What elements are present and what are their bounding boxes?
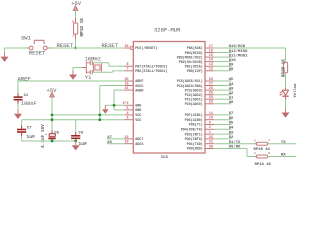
svg-text:PB7(XTAL2/TOSC2): PB7(XTAL2/TOSC2) xyxy=(135,64,167,69)
svg-text:2: 2 xyxy=(254,139,256,142)
pin 30 PD0(RXD) xyxy=(205,148,214,150)
wire net D11/MOSI xyxy=(214,56,231,58)
svg-text:21: 21 xyxy=(125,87,129,91)
pin 29 PC6(/RESET) xyxy=(124,47,130,49)
junction AVCC/VCC1 xyxy=(98,114,101,117)
svg-text:A5: A5 xyxy=(229,78,234,82)
pin 5 GND xyxy=(124,109,133,111)
svg-text:10: 10 xyxy=(209,117,213,121)
svg-text:D5: D5 xyxy=(229,122,234,126)
junction +5V/VCC1 xyxy=(51,114,54,117)
svg-text:PC0(ADC0): PC0(ADC0) xyxy=(185,102,203,107)
svg-text:1: 1 xyxy=(209,131,211,135)
svg-text:A2: A2 xyxy=(229,92,234,96)
svg-text:1: 1 xyxy=(254,152,256,155)
capacitor C5 4.7uF 16V (polarized) xyxy=(51,131,53,134)
svg-text:ADC6: ADC6 xyxy=(135,143,143,147)
svg-text:A7: A7 xyxy=(107,136,112,140)
pin 18 AVCC xyxy=(124,85,133,87)
svg-text:C7: C7 xyxy=(27,126,32,130)
svg-text:PD3(INT1): PD3(INT1) xyxy=(185,132,203,137)
svg-text:C3: C3 xyxy=(78,132,83,136)
svg-text:4.7uF 16V: 4.7uF 16V xyxy=(41,124,46,148)
wire net D8 xyxy=(214,70,231,72)
wire AVCC feed xyxy=(100,85,124,87)
svg-text:PB6(XTAL1/TOSC1): PB6(XTAL1/TOSC1) xyxy=(135,69,167,74)
svg-text:ADC7: ADC7 xyxy=(135,138,143,142)
pin 32 PD2(INT0) xyxy=(205,138,214,140)
svg-text:D1/TX: D1/TX xyxy=(229,140,241,145)
wire net A3 xyxy=(214,89,231,91)
pin 7 PB6(XTAL1/TOSC1) xyxy=(124,70,133,72)
pin 13 PB1(OC1A) xyxy=(205,65,214,67)
wire net D3 xyxy=(214,133,231,135)
svg-text:PC2(ADC2): PC2(ADC2) xyxy=(185,93,203,98)
svg-text:D7: D7 xyxy=(229,112,234,116)
pin 19 ADC6 xyxy=(124,143,133,145)
svg-text:4: 4 xyxy=(127,112,129,116)
wire GND pin row 1 xyxy=(105,104,124,106)
pin 20 AREF xyxy=(124,80,133,82)
wire resistor to LED xyxy=(285,73,287,88)
wire net A6 xyxy=(107,143,124,145)
svg-text:27: 27 xyxy=(209,83,213,87)
svg-text:RESET: RESET xyxy=(102,42,119,49)
svg-text:7: 7 xyxy=(268,139,270,142)
svg-text:29: 29 xyxy=(125,45,129,49)
svg-text:PD2(INT0): PD2(INT0) xyxy=(185,137,203,142)
wire LED to ground xyxy=(285,97,287,100)
pin 24 PC1(ADC1) xyxy=(205,98,214,100)
svg-text:A4: A4 xyxy=(229,83,234,87)
ground (resonator) xyxy=(72,70,74,74)
wire AREF net xyxy=(18,80,125,82)
capacitor C3 1uF xyxy=(75,120,77,132)
pin 12 PB0(ICP) xyxy=(205,70,214,72)
svg-text:IC3: IC3 xyxy=(161,156,169,160)
wire net D9 xyxy=(214,65,231,67)
svg-text:19: 19 xyxy=(125,141,129,145)
svg-text:RP1D 1K: RP1D 1K xyxy=(80,18,85,37)
svg-text:PB4(MISO): PB4(MISO) xyxy=(185,51,203,56)
ground (switch) xyxy=(4,52,6,56)
svg-text:14: 14 xyxy=(209,59,213,63)
svg-text:9: 9 xyxy=(209,121,211,125)
svg-text:PB3(MOSI/OC2): PB3(MOSI/OC2) xyxy=(177,55,203,60)
wire C7 to gnd rail xyxy=(21,136,23,141)
wire net A4 xyxy=(214,85,231,87)
pin 17 PB5(SCK) xyxy=(205,47,214,49)
svg-text:AREF: AREF xyxy=(18,76,31,83)
wire TX out xyxy=(267,143,296,145)
LED D1 Yellow xyxy=(282,90,288,95)
wire net A0 xyxy=(214,103,231,105)
svg-text:8: 8 xyxy=(127,63,129,67)
wire net A5 xyxy=(214,80,231,82)
resistor RP1D 1K (reset pullup) xyxy=(75,18,77,23)
wire +5V to resistor xyxy=(75,10,77,18)
junction C3/gnd rail xyxy=(74,140,77,143)
svg-text:5: 5 xyxy=(127,107,129,111)
svg-text:Y1: Y1 xyxy=(85,74,92,81)
svg-text:6: 6 xyxy=(127,117,129,121)
junction AGND/GND xyxy=(113,104,116,107)
resistor RP1A 1K (RX) xyxy=(255,156,257,158)
wire net D1/TX xyxy=(214,143,256,145)
ground (cap rail) xyxy=(75,141,77,145)
pin 26 PC3(ADC3) xyxy=(205,89,214,91)
pin 2 PD4(XCK/T0) xyxy=(205,128,214,130)
svg-text:PC1(ADC1): PC1(ADC1) xyxy=(185,97,203,102)
wire net D12/MISO xyxy=(214,52,231,54)
wire net A2 xyxy=(214,94,231,96)
junction C5/gnd rail xyxy=(51,140,54,143)
svg-text:31: 31 xyxy=(209,141,213,145)
svg-text:7: 7 xyxy=(127,68,129,72)
wire +5V down to C5 xyxy=(51,97,53,131)
svg-text:RESET: RESET xyxy=(29,49,46,56)
svg-text:PC4(ADC4/SDA): PC4(ADC4/SDA) xyxy=(177,84,203,89)
svg-text:2: 2 xyxy=(209,126,211,130)
svg-text:PD5(T1): PD5(T1) xyxy=(189,123,203,128)
pin 8 PB7(XTAL2/TOSC2) xyxy=(124,65,133,67)
pin 28 PC5(ADC5/SCL) xyxy=(205,80,214,82)
pin 1 PD3(INT1) xyxy=(205,133,214,135)
wire resonator to XTAL2 pin 8 xyxy=(93,62,109,64)
svg-text:PD1(TXD): PD1(TXD) xyxy=(187,142,203,147)
svg-text:26: 26 xyxy=(209,87,213,91)
svg-text:PC3(ADC3): PC3(ADC3) xyxy=(185,88,203,93)
svg-text:PB5(SCK): PB5(SCK) xyxy=(187,46,203,51)
wire RX out xyxy=(267,156,296,158)
ground (LED) xyxy=(285,108,287,112)
svg-text:20: 20 xyxy=(125,78,129,82)
svg-text:RX: RX xyxy=(281,154,286,158)
svg-text:18: 18 xyxy=(125,83,129,87)
wire net D7 xyxy=(214,114,231,116)
wire switch left to ground xyxy=(5,47,27,49)
wire AGND feed xyxy=(114,89,124,91)
svg-text:D4: D4 xyxy=(229,127,234,131)
svg-text:D0/RX: D0/RX xyxy=(229,145,241,150)
pin 31 PD1(TXD) xyxy=(205,143,214,145)
svg-text:A0: A0 xyxy=(229,101,234,105)
svg-text:PB2(SS/OC1B): PB2(SS/OC1B) xyxy=(179,60,203,65)
svg-text:AREF: AREF xyxy=(135,80,143,84)
svg-text:D6: D6 xyxy=(229,117,234,121)
svg-text:PC6(/RESET): PC6(/RESET) xyxy=(135,46,157,51)
svg-text:12: 12 xyxy=(209,68,213,72)
ground (IC GND pins) xyxy=(104,105,106,109)
svg-text:1uF: 1uF xyxy=(26,134,35,140)
svg-text:11: 11 xyxy=(209,112,213,116)
pin 27 PC4(ADC4/SDA) xyxy=(205,85,214,87)
svg-text:C1: C1 xyxy=(24,94,29,98)
wire resonator to XTAL1 pin 7 xyxy=(93,71,113,73)
svg-text:D10: D10 xyxy=(229,59,237,63)
svg-text:A6: A6 xyxy=(107,141,112,145)
wire net D4 xyxy=(214,128,231,130)
svg-text:GND: GND xyxy=(135,105,141,109)
svg-text:32: 32 xyxy=(209,136,213,140)
wire GND pin row 2 xyxy=(114,109,124,111)
junction RESET/pullup xyxy=(74,47,76,49)
pin 15 PB3(MOSI/OC2) xyxy=(205,56,214,58)
junction AVCC/VCC2 xyxy=(98,118,101,121)
svg-text:PD7(AIN1): PD7(AIN1) xyxy=(185,113,203,118)
svg-text:100nF: 100nF xyxy=(21,101,37,107)
svg-text:A3: A3 xyxy=(229,87,234,91)
pin 9 PD5(T1) xyxy=(205,124,214,126)
svg-text:30: 30 xyxy=(209,145,213,149)
wire VCC rail 2 xyxy=(22,119,125,121)
svg-text:PC5(ADC5/SCL): PC5(ADC5/SCL) xyxy=(177,79,203,84)
wire net D2 xyxy=(214,138,231,140)
svg-text:PD6(AIN0): PD6(AIN0) xyxy=(185,118,203,123)
svg-text:TX: TX xyxy=(281,141,286,145)
wire net D5 xyxy=(214,124,231,126)
wire net A1 xyxy=(214,98,231,100)
svg-text:A1: A1 xyxy=(229,96,234,100)
svg-text:16: 16 xyxy=(209,49,213,53)
resistor RP1B 1K (TX) xyxy=(255,143,257,145)
svg-text:Yellow: Yellow xyxy=(293,83,298,98)
pin 21 AGND xyxy=(124,89,133,91)
pin 16 PB4(MISO) xyxy=(205,52,214,54)
svg-text:8: 8 xyxy=(268,152,270,155)
svg-text:PD4(XCK/T0): PD4(XCK/T0) xyxy=(181,128,203,133)
svg-text:PB1(OC1A): PB1(OC1A) xyxy=(185,64,203,69)
svg-text:328P-MUR: 328P-MUR xyxy=(154,27,181,34)
pin 4 VCC xyxy=(124,114,133,116)
svg-text:17: 17 xyxy=(209,45,213,49)
pin 10 PD6(AIN0) xyxy=(205,119,214,121)
pin 23 PC0(ADC0) xyxy=(205,103,214,105)
svg-text:25: 25 xyxy=(209,92,213,96)
svg-text:SW1: SW1 xyxy=(21,34,32,41)
wire net D10 xyxy=(214,61,231,63)
svg-text:AVCC: AVCC xyxy=(135,85,143,89)
capacitor C1 100nF xyxy=(17,81,19,93)
svg-text:D3: D3 xyxy=(229,131,234,135)
pin 25 PC2(ADC2) xyxy=(205,94,214,96)
svg-text:RP1A 1K: RP1A 1K xyxy=(255,163,272,167)
svg-text:23: 23 xyxy=(209,101,213,105)
svg-text:PB0(ICP): PB0(ICP) xyxy=(187,69,203,74)
wire net A7 xyxy=(107,138,124,140)
wire net D6 xyxy=(214,119,231,121)
wire net D0/RX xyxy=(214,148,247,150)
svg-text:VCC: VCC xyxy=(135,114,141,118)
wire RESET net xyxy=(50,47,76,49)
pin 6 VCC xyxy=(124,119,133,121)
wire C1 to ground xyxy=(17,104,19,110)
svg-text:D2: D2 xyxy=(229,136,234,140)
svg-text:15: 15 xyxy=(209,54,213,58)
pin 22 ADC7 xyxy=(124,138,133,140)
wire VCC rail 1 xyxy=(52,114,124,116)
svg-text:RESET: RESET xyxy=(57,42,74,49)
svg-text:VCC: VCC xyxy=(135,119,141,123)
pin 3*2 GND xyxy=(124,104,133,106)
wire net D13/SCK xyxy=(214,47,285,49)
svg-text:PD0(RXD): PD0(RXD) xyxy=(187,147,203,152)
svg-text:24: 24 xyxy=(209,96,213,100)
wire resonator ground xyxy=(82,67,86,69)
svg-text:D12/MISO: D12/MISO xyxy=(229,49,248,54)
svg-text:D13/SCK: D13/SCK xyxy=(229,44,246,49)
svg-text:AGND: AGND xyxy=(135,89,143,93)
op-amp/IC U1: ATmega328 IC3 body xyxy=(133,42,205,154)
wire C5 to gnd rail xyxy=(51,139,53,141)
svg-text:+5V: +5V xyxy=(71,0,82,7)
svg-text:GND: GND xyxy=(135,109,141,113)
resistor RP2B 1K (LED) xyxy=(283,62,287,72)
junction +5V/VCC2 xyxy=(51,118,54,121)
svg-text:1uF: 1uF xyxy=(78,141,87,147)
svg-text:1: 1 xyxy=(72,35,74,38)
svg-text:8: 8 xyxy=(72,20,74,23)
wire resistor to RESET net xyxy=(75,39,77,49)
wire gnd rail (caps) xyxy=(22,140,76,142)
svg-text:D8: D8 xyxy=(229,68,234,72)
ground (C1) xyxy=(17,110,19,114)
svg-text:22: 22 xyxy=(125,136,129,140)
svg-text:D9: D9 xyxy=(229,63,234,67)
pin 11 PD7(AIN1) xyxy=(205,114,214,116)
svg-text:13: 13 xyxy=(209,63,213,67)
capacitor C7 1uF xyxy=(21,120,23,126)
svg-text:28: 28 xyxy=(209,78,213,82)
svg-text:D11/MOSI: D11/MOSI xyxy=(229,53,248,58)
pin 14 PB2(SS/OC1B) xyxy=(205,61,214,63)
svg-text:C5: C5 xyxy=(54,131,59,135)
